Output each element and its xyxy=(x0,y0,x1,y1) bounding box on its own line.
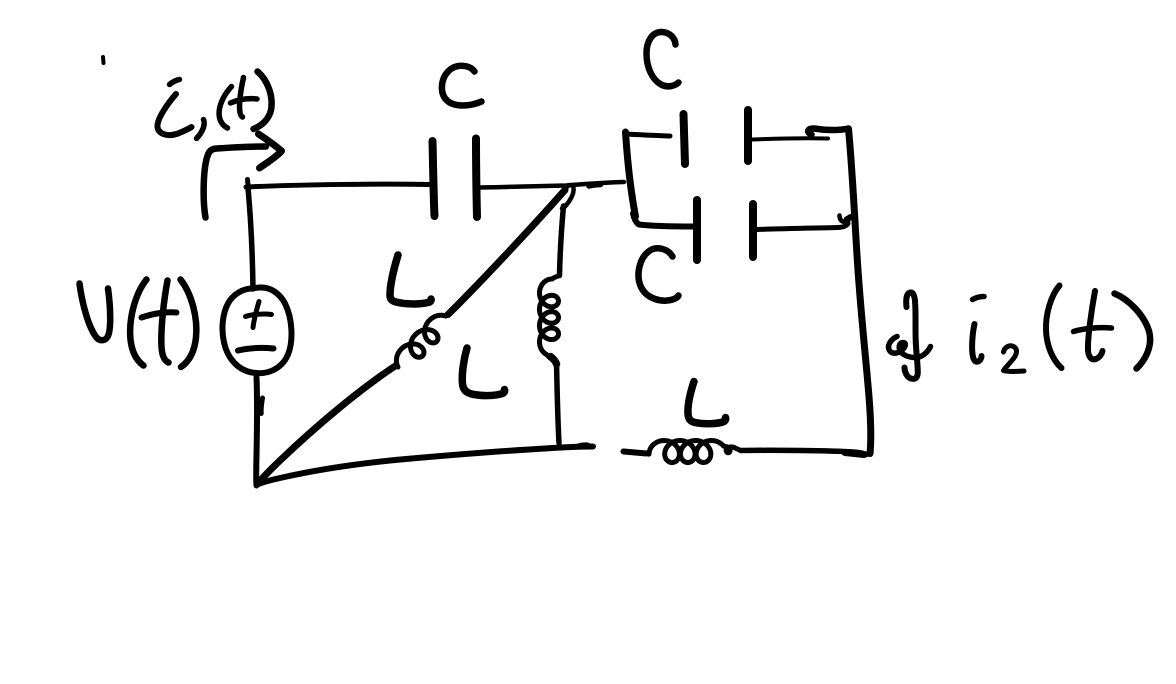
inductor L1 coil (diagonal) xyxy=(396,315,445,367)
wire bottom left segment xyxy=(257,447,593,485)
inductor L2 top wire xyxy=(560,206,564,276)
inductor L3 coil (bottom) xyxy=(649,441,741,463)
wire bottom cap branch left with corner xyxy=(633,214,693,227)
i2 down arrow xyxy=(888,292,930,378)
parallel caps left vertical wire xyxy=(626,132,636,217)
capacitor C2 plate right xyxy=(744,110,752,161)
wire right vertical xyxy=(849,129,871,454)
tick on wire below source xyxy=(261,398,262,414)
capacitor C3 plate right xyxy=(749,204,757,257)
capacitor C3 plate left xyxy=(693,200,701,260)
wire top cap branch left xyxy=(626,134,670,136)
wire tick right of node B xyxy=(589,185,601,187)
capacitor C1 plate right xyxy=(476,139,477,218)
voltage source V1 circle xyxy=(222,288,291,374)
label L of L1 xyxy=(390,255,431,304)
dash before bottom inductor xyxy=(624,452,647,454)
faint smudge xyxy=(101,57,106,63)
label C of C3 xyxy=(638,248,678,300)
inductor L1 upper diagonal wire xyxy=(448,190,565,315)
label i1(t) xyxy=(157,72,271,139)
corner hook top-right xyxy=(808,128,848,134)
label L of L2 xyxy=(462,348,504,396)
label C of C1 xyxy=(442,66,482,106)
wire top-left horizontal xyxy=(246,184,429,187)
inductor L2 coil (vertical) xyxy=(540,276,560,363)
inductor L1 lower diagonal wire xyxy=(258,366,396,484)
label V(t) xyxy=(80,280,197,368)
wire bottom right segment xyxy=(741,450,867,454)
label C of C2 xyxy=(647,32,679,86)
wire top cap branch right xyxy=(751,138,828,139)
label L of L3 xyxy=(688,382,726,424)
V1 minus sign xyxy=(238,348,274,350)
inductor L2 bottom wire xyxy=(557,362,560,443)
capacitor C2 plate left xyxy=(684,114,686,164)
node B junction loop xyxy=(562,185,574,208)
wire bottom cap branch right xyxy=(757,224,848,230)
bump on bottom wire xyxy=(578,445,588,446)
capacitor C1 plate left xyxy=(433,141,435,216)
arrow i1 direction xyxy=(204,134,282,218)
blob at L2 coil exit xyxy=(551,357,557,365)
wire C1 through node B to parallel capacitors xyxy=(478,182,624,188)
label i2(t) xyxy=(972,286,1150,372)
wire left vertical to source xyxy=(248,188,253,289)
wire below source xyxy=(253,378,260,486)
bottom right corner blob xyxy=(845,453,864,455)
end curl at right of bottom cap branch xyxy=(840,216,850,223)
V1 plus sign xyxy=(246,302,272,328)
corner stub at node A xyxy=(248,180,249,190)
